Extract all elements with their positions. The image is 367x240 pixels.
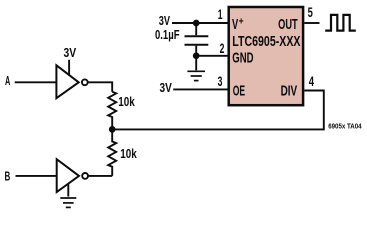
- inverter U1 output bubble: [82, 79, 88, 85]
- wire 3V to pin 3 OE: [173, 88, 227, 90]
- wire cap top stub: [195, 23, 197, 35]
- inverter U2 output bubble: [82, 173, 88, 179]
- wire B input: [16, 175, 57, 177]
- svg-text:10k: 10k: [118, 95, 135, 109]
- wire OUT pin 5: [304, 22, 319, 24]
- square wave symbol: [325, 15, 356, 31]
- wire 3V to pin 1: [172, 22, 228, 24]
- wire cap bottom stub: [195, 46, 197, 56]
- svg-text:A: A: [5, 74, 10, 88]
- inverter U2 (B buffer): [57, 159, 79, 192]
- svg-text:5: 5: [308, 4, 313, 20]
- wire R2 to U2 bubble: [88, 175, 112, 177]
- svg-text:DIV: DIV: [281, 83, 298, 100]
- wire GND pin 2: [196, 55, 227, 57]
- node junction cap bottom: [194, 53, 199, 58]
- wire A input: [15, 81, 57, 83]
- svg-text:1: 1: [218, 6, 223, 22]
- wire ground stub: [195, 56, 197, 71]
- svg-text:OE: OE: [233, 83, 245, 100]
- wire 3V stub to inverter U1: [68, 60, 70, 75]
- ground symbol at C1: [187, 70, 205, 72]
- svg-text:3V: 3V: [64, 46, 77, 60]
- svg-text:+: +: [239, 16, 244, 27]
- svg-text:GND: GND: [232, 49, 253, 66]
- capacitor C1 0.1uF: [185, 35, 209, 37]
- svg-text:0.1µF: 0.1µF: [155, 28, 180, 42]
- svg-text:2: 2: [220, 40, 225, 56]
- svg-text:6905x TA04: 6905x TA04: [328, 124, 361, 131]
- svg-text:3: 3: [218, 73, 223, 89]
- svg-text:LTC6905-XXX: LTC6905-XXX: [232, 34, 300, 50]
- resistor R1 10k: [108, 92, 116, 130]
- node junction cap top: [194, 21, 199, 26]
- svg-text:B: B: [5, 169, 11, 183]
- svg-text:V: V: [232, 16, 238, 33]
- ground symbol under U2: [60, 197, 76, 199]
- svg-text:3V: 3V: [160, 81, 173, 95]
- wire ground stub from U2: [67, 184, 69, 197]
- op-amp U3 LTC6905 box: [229, 7, 303, 105]
- inverter U1 (A buffer): [56, 65, 78, 98]
- svg-text:10k: 10k: [120, 147, 137, 161]
- svg-text:4: 4: [309, 73, 314, 89]
- node junction R1/R2/DIV: [110, 127, 115, 132]
- wire U1 output to R1: [88, 82, 113, 92]
- wire DIV pin 4 loop to node: [112, 91, 324, 130]
- svg-text:OUT: OUT: [278, 16, 298, 33]
- resistor R2 10k: [108, 129, 116, 176]
- svg-text:3V: 3V: [159, 14, 171, 28]
